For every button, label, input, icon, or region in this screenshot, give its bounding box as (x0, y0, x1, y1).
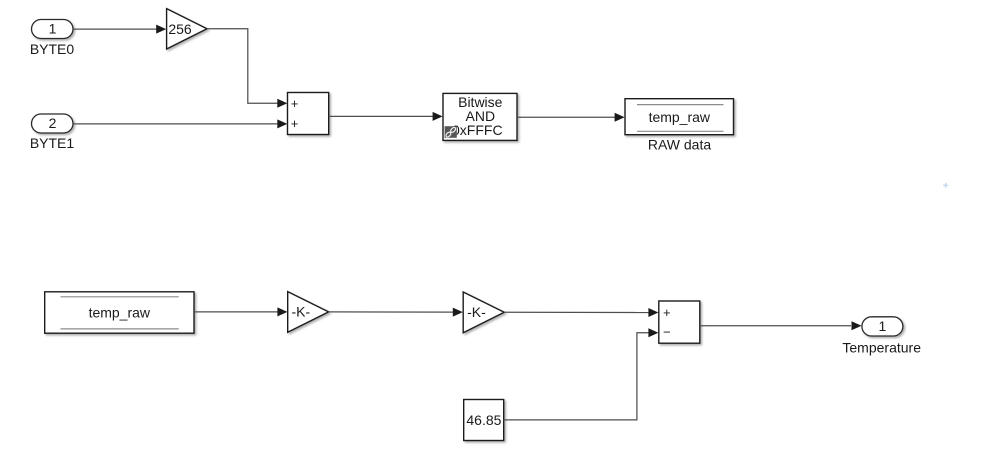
gain 256 (167, 9, 207, 49)
sum block S1 (288, 93, 329, 135)
wire constant to sum2 minus input (504, 328, 659, 420)
gain K2 (-K-) (463, 292, 504, 333)
svg-text:1: 1 (49, 21, 57, 37)
bitwise AND block 0xFFFC (443, 93, 517, 140)
wire inport2 to sum1 input 2 (73, 119, 287, 128)
wire sum1 to bitwise AND (329, 112, 443, 121)
svg-text:temp_raw: temp_raw (89, 305, 151, 321)
svg-text:BYTE1: BYTE1 (30, 135, 75, 151)
wire bitwise AND to data store write (517, 113, 625, 122)
svg-text:46.85: 46.85 (466, 412, 501, 428)
inport 1 (BYTE0) (30, 20, 75, 58)
wire gain K1 to gain K2 (329, 308, 463, 317)
svg-text:256: 256 (168, 21, 192, 37)
svg-text:BYTE0: BYTE0 (30, 41, 75, 57)
inport 2 (BYTE1) (30, 114, 75, 151)
wire inport1 to gain 256 (73, 25, 166, 34)
svg-text:-K-: -K- (291, 304, 310, 320)
svg-text:Temperature: Temperature (842, 339, 921, 355)
svg-text:RAW data: RAW data (648, 136, 711, 152)
library link badge on bitwise AND (445, 126, 457, 138)
wire data store read to gain K1 (194, 307, 287, 316)
wire gain 256 to sum1 input 1 (207, 29, 287, 108)
svg-text:-K-: -K- (467, 304, 486, 320)
wire sum2 to outport (700, 321, 862, 330)
outport 1 (Temperature) (842, 317, 921, 356)
data store read temp_raw (45, 292, 194, 333)
svg-text:1: 1 (879, 318, 887, 334)
svg-text:+: + (291, 96, 299, 111)
constant 46.85 (464, 400, 504, 441)
svg-text:temp_raw: temp_raw (649, 109, 711, 125)
svg-text:0xFFFC: 0xFFFC (452, 122, 503, 138)
data store write temp_raw (RAW data) (625, 99, 734, 153)
sum block S2 (+ / -) (659, 301, 700, 343)
gain K1 (-K-) (288, 292, 329, 333)
canvas center marker (943, 183, 948, 188)
svg-text:+: + (291, 116, 299, 131)
wire gain K2 to sum2 plus input (504, 308, 658, 317)
svg-text:−: − (663, 324, 671, 339)
svg-text:+: + (663, 305, 671, 320)
svg-text:2: 2 (49, 115, 57, 131)
